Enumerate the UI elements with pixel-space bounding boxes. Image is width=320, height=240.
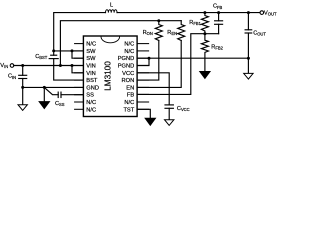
wire SW node riser to top rail	[54, 13, 106, 51]
node CIN top	[21, 64, 24, 67]
svg-text:N/C: N/C	[86, 42, 96, 48]
svg-text:N/C: N/C	[124, 100, 134, 106]
node FB divider	[203, 32, 206, 35]
node COUT top	[247, 11, 250, 14]
svg-text:VCC: VCC	[122, 71, 134, 77]
inductor L	[106, 10, 118, 13]
capacitor CIN	[22, 66, 24, 76]
capacitor CSS	[57, 92, 59, 97]
wire VIN terminal to IC	[14, 65, 84, 67]
svg-text:N/C: N/C	[86, 100, 96, 106]
wire SW pins bracket	[72, 51, 83, 58]
svg-text:RFB2: RFB2	[211, 44, 223, 50]
wire VIN pins bracket	[72, 66, 83, 73]
wire PGND2 bracket	[137, 58, 149, 65]
svg-text:BST: BST	[86, 78, 98, 84]
wire VCC to CVCC	[137, 73, 169, 105]
svg-text:VIN: VIN	[86, 64, 95, 70]
wire CBST to BST pin	[54, 59, 84, 81]
junction dots	[21, 11, 250, 89]
svg-text:CBST: CBST	[35, 54, 48, 60]
wire SS diagonal	[44, 87, 58, 94]
node VIN riser	[59, 64, 62, 67]
pin labels right	[118, 42, 135, 114]
capacitor CBST	[53, 51, 55, 55]
svg-text:RON: RON	[122, 78, 135, 84]
node COUT bottom	[247, 57, 250, 60]
node CFB top	[217, 11, 220, 14]
capacitor COUT	[247, 13, 249, 30]
node SW bracket	[71, 49, 74, 52]
wire CSS to SS pin	[61, 94, 83, 96]
svg-text:REN: REN	[167, 30, 177, 36]
svg-text:VIN: VIN	[0, 63, 8, 69]
node SW/CBST	[52, 49, 55, 52]
ground AGND left (open arrow)	[22, 87, 24, 104]
svg-text:GND: GND	[86, 85, 99, 91]
wire inductor to VOUT terminal	[117, 12, 260, 14]
svg-text:VOUT: VOUT	[264, 10, 277, 16]
resistor RFB1	[201, 13, 208, 34]
IC notch	[101, 37, 120, 43]
node RFB1 top	[203, 11, 206, 14]
wire VIN top rail	[60, 21, 181, 66]
wire RON pin riser	[137, 41, 159, 81]
svg-text:RFB1: RFB1	[189, 20, 201, 26]
node GND bus arrow	[43, 86, 46, 89]
pin labels left	[86, 42, 99, 114]
svg-text:VIN: VIN	[86, 71, 95, 77]
svg-text:N/C: N/C	[86, 107, 96, 113]
capacitor CVCC	[165, 104, 173, 106]
resistor RFB2	[201, 34, 208, 72]
node VIN bracket	[71, 64, 74, 67]
pin stubs right	[137, 44, 149, 110]
wire FB pin riser	[137, 34, 219, 95]
terminal VOUT	[260, 11, 264, 15]
wire SW node horizontal	[54, 50, 84, 52]
wire PGND bus right	[137, 57, 248, 59]
capacitor CFB	[218, 24, 220, 33]
svg-text:COUT: COUT	[253, 31, 266, 37]
svg-text:FB: FB	[127, 93, 134, 99]
svg-text:CVCC: CVCC	[177, 106, 190, 112]
ground open arrow under CVCC	[168, 108, 170, 119]
wire GND bus	[23, 86, 84, 88]
IC U1 LM3100 body	[83, 36, 137, 117]
ground PGND under TST (filled arrow)	[145, 118, 155, 125]
wire EN pin riser	[137, 41, 181, 88]
svg-text:PGND: PGND	[118, 56, 134, 62]
node RON top	[157, 19, 160, 22]
ground AGND under RFB2 (filled arrow)	[200, 72, 210, 79]
svg-text:SW: SW	[86, 49, 96, 55]
node GND bus left	[21, 86, 24, 89]
svg-text:CFB: CFB	[213, 4, 223, 10]
svg-text:PGND: PGND	[118, 64, 134, 70]
svg-text:RON: RON	[143, 30, 153, 36]
svg-text:SS: SS	[86, 93, 94, 99]
node PGND bracket	[148, 57, 151, 60]
pin stubs left	[75, 44, 84, 110]
terminal VIN	[10, 64, 14, 68]
svg-text:CSS: CSS	[55, 101, 65, 107]
svg-text:LM3100: LM3100	[103, 61, 112, 91]
svg-text:SW: SW	[86, 56, 96, 62]
svg-text:TST: TST	[123, 107, 134, 113]
svg-text:N/C: N/C	[124, 42, 134, 48]
svg-text:L: L	[110, 3, 113, 9]
resistor RON	[155, 21, 162, 41]
svg-text:EN: EN	[126, 85, 134, 91]
svg-text:CIN: CIN	[8, 74, 16, 80]
ground PGND left (filled arrow)	[43, 87, 45, 102]
svg-text:N/C: N/C	[124, 49, 134, 55]
resistor REN	[178, 21, 185, 41]
ground open arrow under COUT	[247, 58, 249, 73]
wire TST to ground	[137, 109, 150, 118]
